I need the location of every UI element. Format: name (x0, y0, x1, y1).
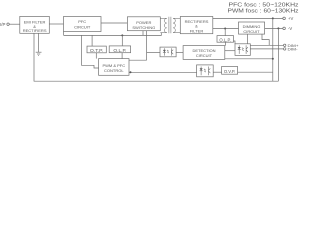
wire POWER bottom down to feedback row (146, 31, 148, 61)
svg-text:PFC fosc : 50~120KHz: PFC fosc : 50~120KHz (229, 2, 299, 8)
svg-text:PFC: PFC (78, 19, 86, 24)
block: DETECTION CIRCUIT (183, 46, 225, 60)
wire PFC left edge down to control rail (63, 32, 65, 36)
wire O.L.P. to PWM control (121, 53, 123, 59)
wire I/P to EMI filter (9, 23, 19, 25)
wire dimming jog to DIM+ (262, 34, 269, 45)
node on +V wire (272, 17, 274, 19)
block: O.L.P. (primary) (109, 46, 130, 53)
svg-text:O.V.P.: O.V.P. (224, 69, 236, 74)
svg-text:RECTIFIERS: RECTIFIERS (23, 28, 47, 33)
svg-text:O.L.P.: O.L.P. (219, 37, 231, 42)
opto-coupler U1 (feedback) (160, 47, 176, 57)
block: DIMMING CIRCUIT (239, 22, 265, 34)
wire -V node down to O.L.P. (224, 29, 226, 36)
svg-text:I/P: I/P (0, 22, 5, 27)
svg-text:PWM fosc : 60~130KHz: PWM fosc : 60~130KHz (228, 8, 299, 14)
node on rail above O.L.P. (121, 34, 123, 36)
node on -V wire right (277, 27, 279, 29)
svg-text:FILTER: FILTER (190, 28, 204, 33)
wire POWER bottom to rail (142, 31, 144, 36)
block: RECTIFIERS & FILTER (180, 17, 213, 34)
svg-text:SWITCHING: SWITCHING (132, 25, 155, 30)
svg-text:DIM-: DIM- (288, 47, 299, 52)
wire opto3 to O.V.P. (213, 71, 221, 73)
wire rail down to O.L.P. (121, 35, 123, 46)
svg-text:O.T.P.: O.T.P. (90, 48, 104, 53)
svg-text:O.L.P.: O.L.P. (113, 48, 126, 53)
wire -V from dimming circuit to terminal (265, 27, 283, 29)
wire PFC to POWER SWITCHING (101, 22, 127, 24)
block: O.L.P. (output) (217, 36, 234, 43)
wire control rail (64, 33, 162, 36)
terminal +V (283, 16, 294, 21)
wire PWM control to feedback drop (129, 59, 147, 61)
wire O.L.P. to detection circuit (225, 42, 227, 45)
block: PWM & PFC CONTROL (99, 59, 129, 76)
block: POWER SWITCHING (127, 17, 160, 31)
node on -V wire (224, 28, 226, 30)
svg-text:+V: +V (288, 16, 293, 21)
block: O.V.P. (222, 67, 238, 75)
svg-text:CONTROL: CONTROL (104, 68, 124, 73)
svg-text:CIRCUIT: CIRCUIT (243, 29, 260, 34)
wire EMI bottom left down to bottom rail (34, 33, 278, 81)
transformer T1 (160, 17, 180, 33)
node on return riser (272, 58, 274, 60)
wire rail down to PWM control left (82, 35, 99, 68)
svg-text:CIRCUIT: CIRCUIT (196, 53, 213, 58)
note: PFC fosc spec text (229, 2, 299, 8)
node on PWM-opto3 wire (130, 71, 132, 73)
wire O.V.P. to return riser (238, 71, 273, 73)
terminal DIM- (284, 47, 299, 52)
wire opto1 to detection circuit (176, 51, 183, 53)
wire dimming circuit down to opto2 (247, 34, 249, 44)
wire right return riser (272, 18, 274, 81)
svg-text:-V: -V (288, 26, 292, 31)
input terminal I/P (0, 22, 9, 27)
wire PWM control to opto3 (129, 71, 197, 73)
ground (FG) (36, 52, 42, 55)
wire EMI to PFC (49, 23, 63, 25)
note: PWM fosc spec text (228, 8, 299, 14)
wire detection circuit to return riser (225, 58, 273, 60)
wire O.L.P. to dimming opto (234, 41, 236, 44)
wire O.T.P. to PWM control (95, 53, 97, 59)
opto-coupler U2 (O.V.P. path) (197, 65, 214, 77)
wire -V from rectifier to dimming circuit (213, 28, 239, 30)
wire DIM- (250, 48, 283, 50)
block: EMI FILTER & RECTIFIERS (20, 16, 50, 33)
wire rail down to O.T.P. (91, 35, 93, 46)
terminal DIM+ (284, 43, 300, 48)
terminal -V (283, 26, 293, 31)
block: PFC CIRCUIT (64, 17, 102, 32)
wire -V riser down to rail (277, 28, 279, 81)
wire feedback drop to opto1 (147, 51, 160, 53)
wire +V output (213, 17, 283, 19)
wire detection circuit to opto2 (225, 50, 235, 52)
wire EMI bottom to ground (38, 33, 40, 52)
svg-text:CIRCUIT: CIRCUIT (74, 25, 91, 30)
opto-coupler U3 (dimming) (235, 44, 250, 56)
block: O.T.P. (87, 46, 106, 53)
wire DIM+ (250, 44, 283, 46)
